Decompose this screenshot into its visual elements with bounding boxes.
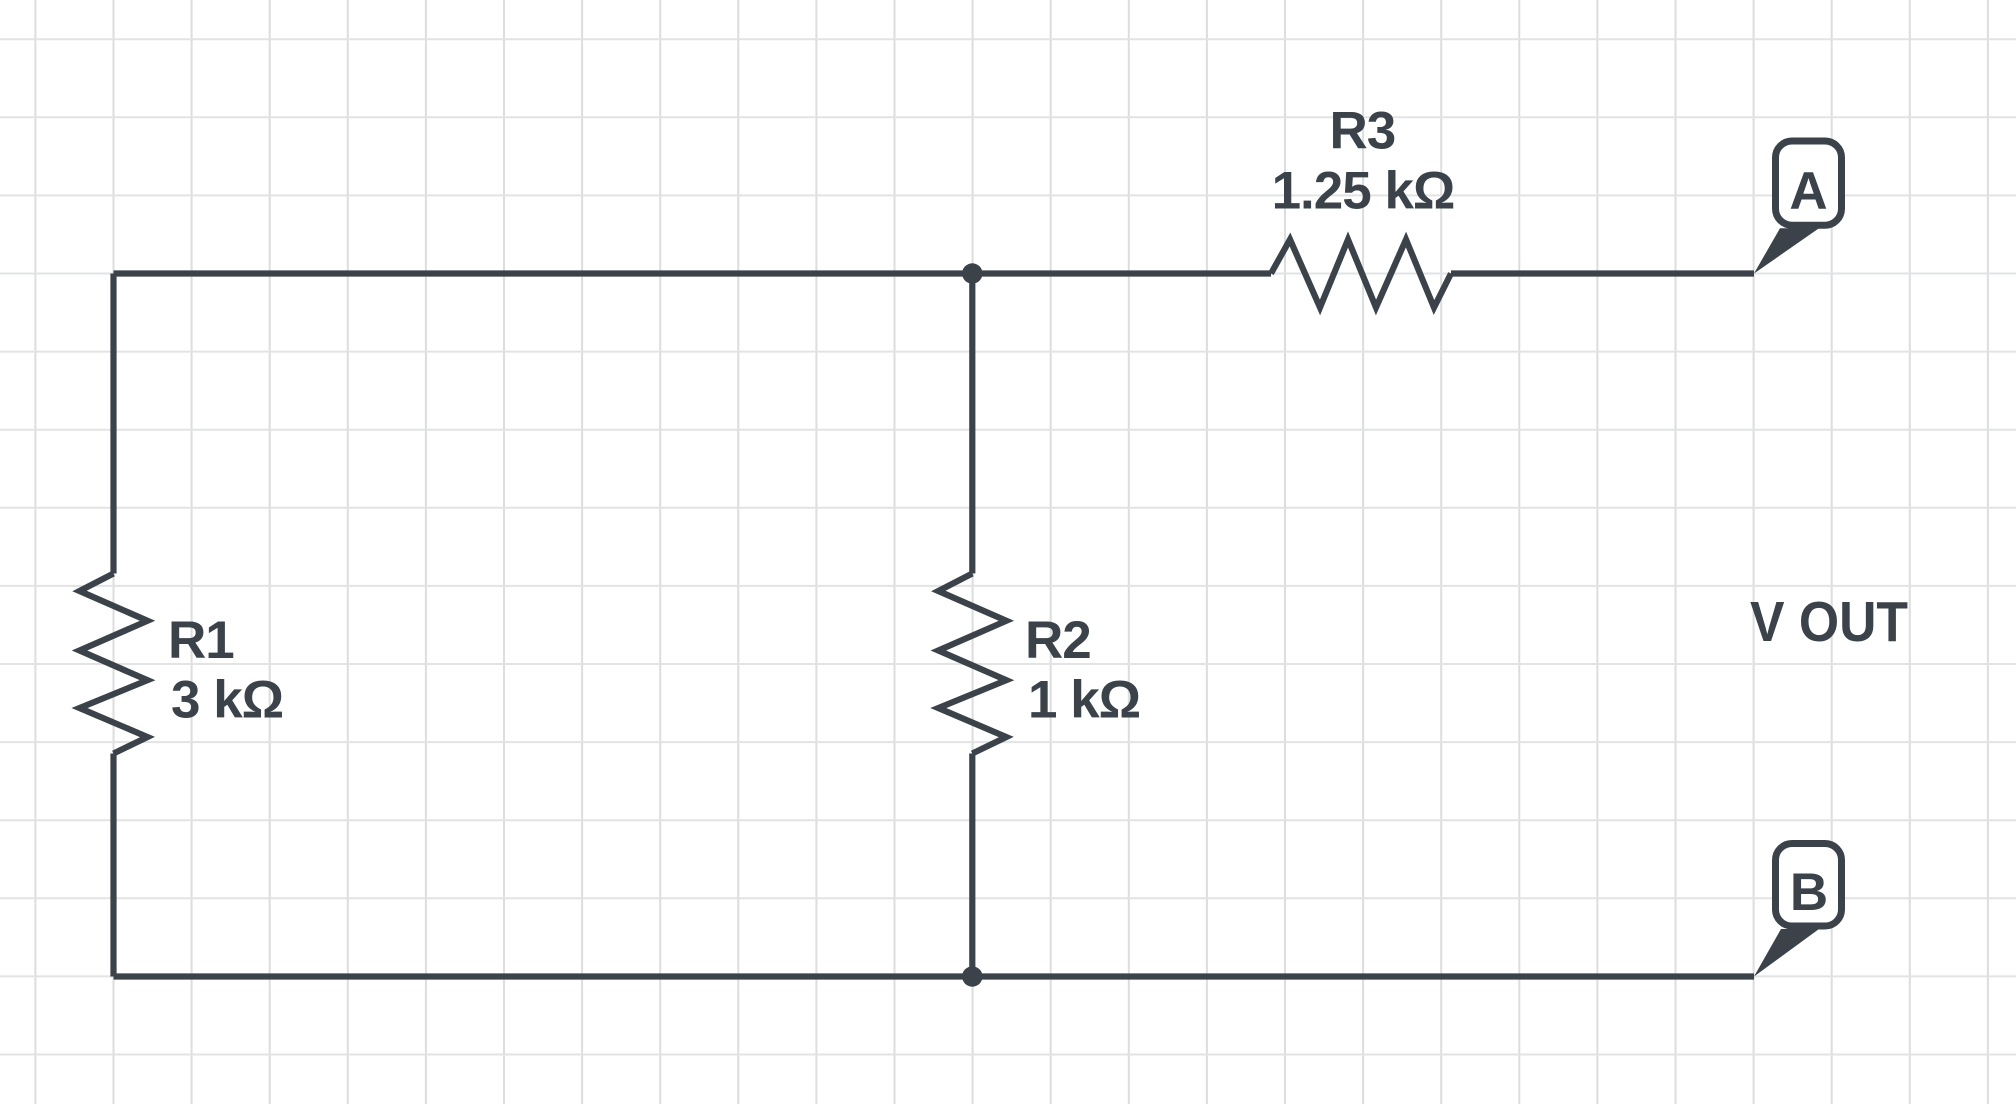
svg-text:B: B (1790, 863, 1828, 922)
svg-text:R1: R1 (168, 611, 234, 670)
resistor R3 (1271, 240, 1451, 308)
wire bottom horizontal (114, 973, 1755, 979)
svg-text:1 kΩ: 1 kΩ (1028, 671, 1140, 730)
svg-text:1.25 kΩ: 1.25 kΩ (1272, 162, 1455, 221)
resistor R1 (80, 574, 148, 754)
wire middle vertical upper (969, 274, 975, 574)
svg-text:R3: R3 (1330, 101, 1396, 160)
wire middle vertical lower (969, 754, 975, 977)
svg-text:3 kΩ: 3 kΩ (171, 671, 283, 730)
node junction top (962, 263, 982, 283)
svg-text:A: A (1789, 162, 1827, 221)
svg-text:R2: R2 (1025, 611, 1091, 670)
terminal B (1754, 844, 1842, 977)
wire top horizontal (114, 270, 1272, 276)
wire top right (R3 to terminal A) (1451, 270, 1754, 276)
resistor R2 (938, 574, 1006, 754)
svg-text:V OUT: V OUT (1750, 590, 1908, 654)
wire left vertical upper (110, 274, 116, 574)
terminal A (1754, 141, 1842, 274)
wire left vertical lower (110, 754, 116, 977)
node junction bottom (962, 966, 982, 986)
